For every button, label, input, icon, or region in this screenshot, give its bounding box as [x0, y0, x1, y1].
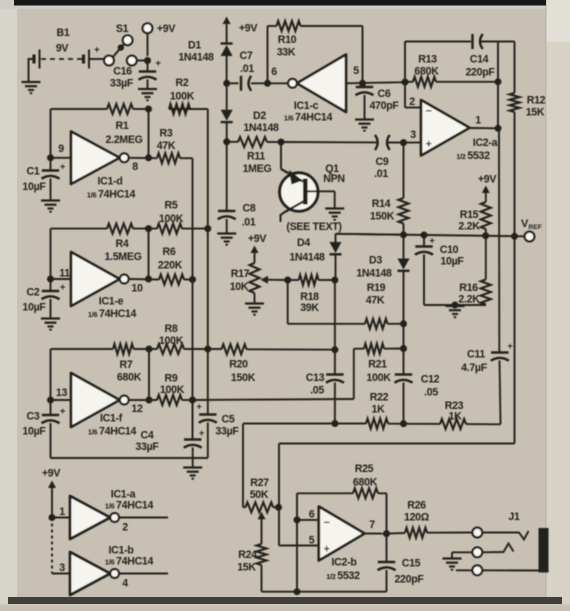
svg-text:5: 5 — [353, 65, 359, 77]
capacitor C3 — [22, 406, 65, 458]
svg-text:2.2K: 2.2K — [458, 294, 480, 306]
svg-text:1: 1 — [475, 115, 481, 127]
capacitor C2 — [22, 282, 65, 318]
svg-text:.01: .01 — [374, 168, 388, 180]
svg-text:B1: B1 — [57, 27, 70, 39]
svg-text:C15: C15 — [402, 558, 421, 570]
svg-text:C16: C16 — [113, 66, 132, 78]
diode D4 — [289, 237, 341, 280]
svg-text:C4: C4 — [141, 430, 154, 442]
diode D3 — [356, 235, 409, 349]
wire: R27 to R22 line — [242, 424, 244, 508]
op-amp IC2-b — [319, 507, 365, 583]
wire: pin 6 — [297, 509, 319, 521]
resistor R15 — [458, 202, 490, 236]
svg-text:33µF: 33µF — [110, 78, 134, 90]
svg-text:3: 3 — [59, 562, 65, 574]
svg-text:3: 3 — [410, 129, 416, 141]
node: R14/D3/line — [400, 231, 407, 238]
node: Q1 base tap — [278, 139, 285, 146]
potentiometer R27 — [243, 477, 279, 544]
node: C9/pin3/R14 — [400, 139, 407, 146]
svg-text:680K: 680K — [414, 66, 439, 78]
svg-text:D3: D3 — [369, 255, 382, 267]
wire: Vref line — [336, 234, 525, 237]
wire: IC1-f top feedback — [51, 348, 222, 350]
resistor R9 — [157, 373, 185, 406]
svg-text:.01: .01 — [240, 63, 254, 75]
svg-text:9V: 9V — [56, 43, 69, 55]
wire: pin 8 output — [129, 158, 157, 173]
diode D1 — [178, 40, 232, 84]
svg-text:10µF: 10µF — [440, 256, 464, 268]
svg-text:R9: R9 — [165, 373, 178, 385]
svg-text:2.2MEG: 2.2MEG — [105, 134, 142, 146]
ground (C2) — [41, 319, 60, 330]
svg-text:15K: 15K — [237, 562, 256, 574]
svg-text:R7: R7 — [120, 359, 133, 371]
node: R12/Vref — [511, 233, 518, 240]
svg-text:220K: 220K — [158, 260, 183, 272]
svg-text:C8: C8 — [243, 203, 256, 215]
wire: pin 2 output — [119, 518, 168, 534]
svg-text:2: 2 — [122, 522, 128, 534]
node: R21/C12 — [400, 345, 407, 352]
resistor R23 — [440, 400, 466, 429]
svg-text:100K: 100K — [366, 372, 391, 384]
svg-text:100K: 100K — [159, 213, 184, 225]
svg-text:1/2 5532: 1/2 5532 — [456, 150, 490, 162]
svg-text:R12: R12 — [527, 95, 546, 107]
svg-text:100K: 100K — [159, 335, 184, 347]
svg-text:1MEG: 1MEG — [243, 163, 272, 175]
svg-text:R2: R2 — [176, 77, 189, 89]
wire: D4 top run — [336, 234, 404, 242]
wire: IC1-d top feedback — [51, 108, 208, 110]
svg-text:(SEE TEXT): (SEE TEXT) — [286, 221, 341, 233]
capacitor C6 — [356, 83, 400, 118]
svg-text:220pF: 220pF — [394, 574, 424, 586]
resistor R5 — [157, 200, 184, 234]
svg-text:IC2-a: IC2-a — [473, 137, 498, 149]
svg-text:C9: C9 — [376, 156, 389, 168]
svg-text:1N4148: 1N4148 — [178, 52, 214, 64]
svg-text:NPN: NPN — [323, 173, 344, 185]
wire: C14 top — [405, 42, 498, 129]
node: pin1 tee — [49, 514, 56, 521]
svg-text:+: + — [60, 162, 66, 173]
svg-text:680K: 680K — [353, 477, 378, 489]
wire: pin 9 — [51, 143, 72, 158]
svg-text:R3: R3 — [160, 128, 173, 140]
capacitor C11 — [461, 128, 512, 424]
svg-text:+9V: +9V — [239, 23, 257, 35]
node: pin6 tee — [294, 516, 301, 523]
+9V (R17) — [248, 233, 266, 263]
ground (J1) — [443, 559, 462, 570]
jack J1 ring contact — [452, 544, 514, 558]
jack J1 body — [539, 528, 549, 573]
node: pin10/R6 — [145, 276, 152, 283]
svg-text:1/6 74HC14: 1/6 74HC14 — [105, 556, 154, 568]
svg-text:6: 6 — [271, 66, 277, 78]
node: R13 right — [495, 78, 502, 85]
node: R15/R16/Vref — [482, 232, 489, 239]
svg-text:J1: J1 — [508, 511, 520, 523]
svg-text:R21: R21 — [368, 359, 387, 371]
svg-text:R10: R10 — [278, 34, 297, 46]
svg-text:7: 7 — [369, 519, 375, 531]
node: D3/R19 — [400, 320, 407, 327]
svg-text:C3: C3 — [27, 411, 40, 423]
svg-text:R19: R19 — [367, 282, 386, 294]
node: pin9 — [47, 154, 54, 161]
svg-text:C12: C12 — [421, 374, 440, 386]
svg-text:R26: R26 — [407, 500, 426, 512]
svg-text:R13: R13 — [418, 54, 437, 66]
node: bus/R8 — [204, 346, 211, 353]
svg-text:1: 1 — [59, 506, 65, 518]
svg-text:1/6 74HC14: 1/6 74HC14 — [88, 308, 137, 320]
svg-text:R15: R15 — [460, 209, 479, 221]
resistor R4 — [104, 224, 141, 263]
node: R9 bus — [189, 397, 196, 404]
wire: pin 10 output — [129, 279, 159, 295]
svg-text:R5: R5 — [165, 200, 178, 212]
terminal Vref — [521, 218, 542, 241]
wire: pin 11 — [51, 268, 72, 280]
wire: C10/R16 bottom — [424, 304, 486, 306]
resistor R20 — [222, 344, 335, 384]
ground (C1) — [41, 201, 60, 212]
resistor R26 — [387, 500, 473, 538]
svg-text:R24: R24 — [238, 549, 257, 561]
svg-text:15K: 15K — [526, 107, 545, 119]
svg-text:R27: R27 — [250, 477, 269, 489]
switch S1 — [104, 23, 147, 65]
wire: pin12 long run — [182, 399, 354, 400]
jack J1 tip contact — [472, 511, 528, 540]
svg-text:+: + — [425, 139, 431, 151]
svg-text:+: + — [60, 406, 66, 417]
svg-text:R8: R8 — [165, 323, 178, 335]
svg-text:.01: .01 — [242, 217, 256, 229]
svg-text:IC1-c: IC1-c — [294, 100, 319, 112]
wire: pin 2 — [405, 82, 421, 108]
svg-text:IC1-f: IC1-f — [100, 413, 123, 425]
svg-text:8: 8 — [132, 161, 138, 173]
resistor R19 — [365, 282, 404, 329]
wire: IC1-e top feedback — [51, 228, 208, 230]
resistor R10 — [277, 21, 301, 59]
node: ground tap — [452, 302, 459, 309]
svg-text:10µF: 10µF — [22, 302, 46, 314]
svg-text:100K: 100K — [170, 91, 195, 103]
svg-text:100K: 100K — [160, 384, 185, 396]
node: C12 bottom — [400, 420, 407, 427]
node: D1/C7/D2 — [223, 80, 230, 87]
wire: R1-R3 link — [148, 109, 150, 158]
node: R20/C13 — [331, 346, 338, 353]
op-amp IC1-f — [71, 373, 137, 438]
capacitor C7 — [227, 50, 268, 91]
resistor R25 — [297, 463, 387, 534]
svg-text:1/6 74HC14: 1/6 74HC14 — [284, 112, 333, 124]
svg-text:D1: D1 — [188, 40, 201, 52]
wire: pin 1 output — [470, 115, 499, 129]
svg-text:+: + — [197, 402, 202, 412]
capacitor C14 — [465, 34, 495, 79]
op-amp IC1-a — [70, 489, 154, 540]
potentiometer R17 — [230, 263, 288, 303]
capacitor C4 — [135, 400, 204, 467]
resistor R18 — [288, 275, 335, 314]
svg-text:33µF: 33µF — [215, 426, 239, 438]
wire: IC1-d left rail — [50, 109, 52, 170]
svg-text:R11: R11 — [247, 151, 265, 163]
svg-text:D2: D2 — [253, 110, 266, 122]
resistor R22 — [366, 392, 389, 429]
svg-text:12: 12 — [131, 403, 143, 415]
svg-text:+9V: +9V — [42, 468, 60, 480]
node: R4/R5 — [145, 225, 152, 232]
svg-text:1N4148: 1N4148 — [243, 122, 279, 134]
capacitor C5 — [197, 349, 240, 458]
svg-text:−: − — [425, 106, 431, 118]
node: pin8/R3 — [145, 154, 152, 161]
node: D4/R18 — [331, 277, 338, 284]
capacitor C15 — [378, 534, 425, 592]
resistor R7 — [113, 344, 142, 384]
svg-text:33µF: 33µF — [135, 441, 159, 453]
wire: bottom ground run — [51, 457, 208, 459]
op-amp IC1-e — [71, 252, 137, 320]
svg-text:R22: R22 — [370, 392, 389, 404]
svg-text:D4: D4 — [297, 237, 310, 249]
svg-text:+: + — [60, 282, 66, 293]
capacitor C1 — [22, 162, 65, 200]
capacitor C16 — [110, 58, 161, 90]
node: R6 bus — [189, 276, 196, 283]
resistor R16 — [458, 236, 490, 306]
svg-text:R1: R1 — [116, 120, 129, 132]
node: pin13 — [47, 397, 54, 404]
svg-text:120Ω: 120Ω — [404, 512, 430, 524]
wire: pin 12 output — [129, 400, 157, 415]
diode D2 — [221, 83, 279, 142]
node: D2/R11/C8 — [223, 138, 230, 145]
wire: pin 3 — [404, 129, 422, 143]
svg-text:10µF: 10µF — [22, 181, 46, 193]
svg-text:39K: 39K — [300, 302, 319, 314]
+9V terminal (top) — [143, 23, 176, 56]
svg-text:150K: 150K — [370, 211, 395, 223]
svg-text:150K: 150K — [231, 372, 256, 384]
ground (C4/C5) — [183, 468, 202, 479]
svg-text:1.5MEG: 1.5MEG — [104, 251, 141, 263]
op-amp IC1-c — [268, 55, 347, 124]
svg-text:47K: 47K — [157, 140, 176, 152]
wire: main bus (R2/R5/R8) — [207, 109, 209, 349]
resistor R14 — [370, 143, 409, 235]
wire: pin 13 — [51, 387, 72, 400]
ground (C6) — [355, 120, 374, 131]
capacitor C9 — [281, 135, 404, 180]
svg-text:47K: 47K — [366, 295, 385, 307]
svg-text:4: 4 — [122, 578, 128, 590]
wire: IC1-f left rail — [50, 349, 52, 415]
op-amp IC2-a — [421, 100, 498, 162]
node: pin11 — [47, 276, 54, 283]
svg-text:11: 11 — [59, 268, 70, 280]
+9V rail (IC1-a/b) — [42, 468, 60, 574]
svg-text:+9V: +9V — [157, 23, 175, 35]
resistor R8 — [157, 323, 184, 354]
capacitor C13 — [306, 350, 344, 424]
svg-text:C6: C6 — [378, 88, 391, 100]
node: R7/R8 — [146, 346, 153, 353]
svg-text:C5: C5 — [222, 414, 235, 426]
svg-text:IC2-b: IC2-b — [332, 557, 358, 569]
svg-text:C10: C10 — [440, 244, 459, 256]
wire: IC1-e left rail — [50, 229, 52, 291]
resistor R11 — [227, 137, 281, 175]
svg-text:1K: 1K — [449, 411, 463, 423]
svg-text:R25: R25 — [355, 463, 374, 475]
svg-text:R4: R4 — [116, 238, 129, 250]
wire: D4 chain down — [334, 280, 336, 350]
svg-text:+: + — [155, 58, 161, 69]
svg-text:10µF: 10µF — [22, 426, 46, 438]
svg-text:1/6 74HC14: 1/6 74HC14 — [87, 189, 136, 201]
wire: pin6 rail — [296, 493, 298, 591]
svg-text:C13: C13 — [306, 372, 325, 384]
svg-text:+: + — [508, 341, 513, 351]
svg-text:6: 6 — [309, 509, 315, 521]
svg-text:1N4148: 1N4148 — [356, 268, 392, 280]
wire: pin 7 output — [365, 519, 387, 534]
svg-text:10: 10 — [131, 283, 143, 295]
svg-text:33K: 33K — [277, 47, 296, 59]
resistor R24 — [237, 544, 266, 592]
wire: pin 1 — [52, 506, 70, 518]
node: C10 tap — [421, 232, 428, 239]
node: pin6 — [264, 66, 277, 87]
ground (C8) — [217, 234, 236, 245]
svg-text:1K: 1K — [372, 404, 386, 416]
node: R17 wiper — [284, 277, 291, 284]
svg-text:S1: S1 — [116, 23, 129, 35]
node: pin5/C6 — [359, 80, 366, 87]
wire: R6 to bus — [184, 279, 193, 281]
+9V (R15) — [478, 174, 496, 203]
resistor R1 — [105, 104, 142, 146]
svg-text:IC1-e: IC1-e — [99, 296, 124, 308]
svg-text:−: − — [323, 517, 329, 529]
svg-text:+9V: +9V — [248, 233, 266, 245]
wire: R3 to bus — [180, 158, 193, 439]
svg-text:IC1-d: IC1-d — [98, 176, 123, 188]
capacitor C12 — [395, 349, 440, 424]
wire: R10 feedback — [268, 26, 363, 83]
svg-text:R6: R6 — [163, 246, 176, 258]
svg-text:R17: R17 — [231, 268, 250, 280]
ground (C10/R16) — [446, 306, 465, 317]
capacitor C8 — [218, 142, 256, 233]
svg-text:10K: 10K — [230, 281, 249, 293]
node: R13 left — [402, 79, 409, 86]
svg-text:.05: .05 — [310, 385, 324, 397]
node: C13 bottom — [331, 420, 338, 427]
svg-text:C1: C1 — [27, 166, 40, 178]
wire: R7-R9 link — [148, 349, 150, 400]
wire: pin 4 output — [119, 574, 168, 590]
svg-text:+9V: +9V — [478, 174, 496, 186]
svg-text:C2: C2 — [27, 287, 40, 299]
resistor R6 — [158, 246, 184, 285]
svg-text:+: + — [323, 544, 329, 556]
wire: wiper to R19 line — [288, 280, 365, 324]
svg-text:.05: .05 — [424, 387, 438, 399]
ground (R17) — [245, 304, 264, 315]
node: bus/R5 — [204, 225, 211, 232]
svg-text:680K: 680K — [117, 372, 142, 384]
resistor R13 — [405, 54, 498, 87]
wire: bottom run — [262, 591, 387, 593]
node: output IC2-a — [495, 125, 502, 132]
node: bottom tee — [294, 588, 301, 595]
svg-text:C11: C11 — [467, 349, 485, 361]
resistor R12 — [498, 42, 546, 444]
svg-text:5: 5 — [309, 535, 315, 547]
svg-text:1/2 5532: 1/2 5532 — [326, 570, 360, 582]
bottom border bar — [8, 597, 562, 604]
node: output IC2-b — [383, 530, 390, 537]
svg-text:220pF: 220pF — [465, 67, 495, 79]
ground (Q1) — [325, 209, 344, 220]
ground (C16) — [138, 89, 157, 100]
svg-text:R20: R20 — [229, 359, 248, 371]
svg-text:470pF: 470pF — [369, 100, 399, 112]
svg-text:1/6 74HC14: 1/6 74HC14 — [105, 500, 154, 512]
svg-text:50K: 50K — [250, 489, 269, 501]
svg-text:C7: C7 — [240, 50, 253, 62]
svg-text:+: + — [94, 45, 100, 56]
wire: Vref to pin5 run — [279, 444, 515, 546]
svg-text:2.2K: 2.2K — [458, 221, 480, 233]
wire: R4-R6 link — [148, 229, 150, 279]
svg-text:R14: R14 — [372, 198, 391, 210]
op-amp IC1-b — [70, 545, 154, 596]
top border bar — [14, 0, 546, 6]
wire: pin 3 — [52, 562, 70, 574]
svg-text:C14: C14 — [470, 54, 489, 66]
svg-text:1N4148: 1N4148 — [289, 252, 325, 264]
svg-text:13: 13 — [56, 387, 68, 399]
wire: pin 5 input — [346, 65, 405, 83]
node: R1/R2 — [145, 106, 152, 113]
svg-text:9: 9 — [58, 143, 64, 155]
svg-text:1/6 74HC14: 1/6 74HC14 — [88, 426, 137, 438]
+9V (D1) — [223, 17, 258, 44]
svg-text:2: 2 — [409, 96, 415, 108]
battery B1 — [34, 27, 105, 69]
op-amp IC1-d — [71, 132, 136, 201]
svg-text:4.7µF: 4.7µF — [461, 362, 488, 374]
capacitor C10 — [415, 235, 464, 305]
transistor Q1 — [280, 142, 345, 222]
node: R27 right — [275, 504, 282, 511]
